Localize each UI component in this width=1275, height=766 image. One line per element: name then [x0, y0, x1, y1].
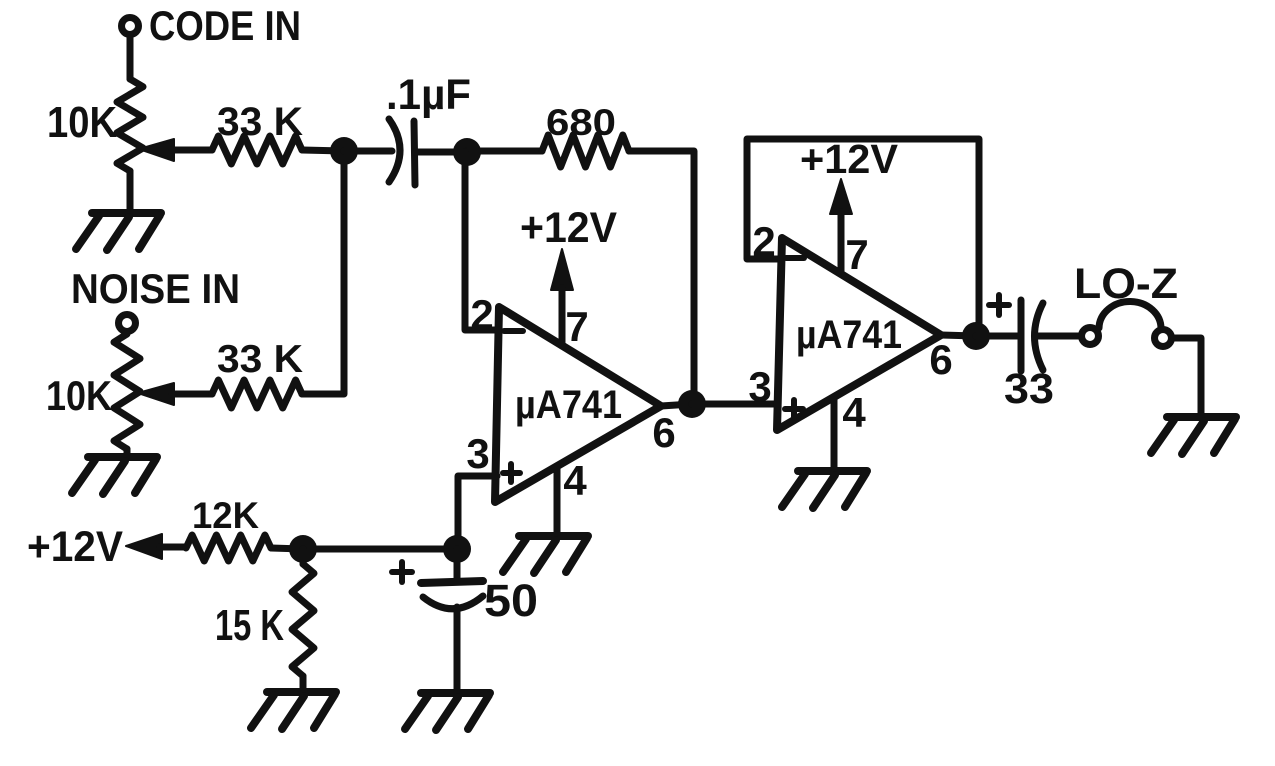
wire R6 to node E [271, 548, 303, 549]
svg-text:33: 33 [1004, 365, 1054, 413]
wire node A to C1 [344, 148, 392, 155]
wire R1 bottom to ground [127, 171, 134, 212]
wire node E to R7 [300, 549, 307, 564]
wire node B to U1 pin 2 [465, 152, 499, 330]
wire node G to C3 [976, 333, 1018, 340]
output terminal 2 [1155, 330, 1172, 347]
wire U2 feedback loop [747, 139, 979, 336]
wire R2 to node A [302, 150, 344, 151]
svg-text:+12V: +12V [800, 136, 899, 182]
wire node F to C2 [454, 549, 461, 581]
wire wiper to R4 [172, 391, 212, 398]
+12V arrow (U2 pin 7) [830, 179, 852, 214]
wire C3 to terminal [1036, 333, 1080, 340]
ground (R7) [267, 688, 336, 696]
svg-text:10K: 10K [47, 98, 117, 147]
svg-text:33 K: 33 K [217, 338, 303, 381]
wire C1 to node B [415, 149, 467, 156]
resistor R5 680 body [542, 135, 629, 167]
svg-text:2: 2 [470, 291, 493, 338]
ground (pot R3) [88, 453, 157, 461]
wire U2 pin 7 [838, 212, 845, 271]
wire R5 to node C (feedback) [629, 151, 694, 404]
wire U1 pin 4 [554, 466, 561, 533]
svg-text:LO-Z: LO-Z [1074, 260, 1178, 308]
junction node E [289, 535, 317, 563]
+12V arrow (bias) [126, 534, 162, 559]
pot R3 wiper arrow [138, 383, 174, 405]
+12V arrow (U1 pin 7) [551, 249, 573, 290]
wire U1 pin 3 to node F [458, 476, 497, 549]
capacitor C3 straight plate [1018, 300, 1025, 371]
junction node F [443, 535, 471, 563]
wire R7 to ground [300, 676, 307, 691]
svg-text:6: 6 [652, 409, 675, 456]
capacitor C1 straight plate [414, 121, 415, 185]
svg-text:NOISE IN: NOISE IN [71, 265, 240, 312]
capacitor C3 curved plate [1035, 303, 1044, 370]
svg-text:680: 680 [546, 102, 616, 143]
ground (U1 pin 4) [519, 532, 588, 540]
output terminal 1 [1082, 328, 1099, 345]
svg-text:2: 2 [752, 218, 775, 265]
capacitor C3 plus sign [989, 302, 1009, 308]
svg-text:3: 3 [748, 363, 771, 410]
svg-text:.1µF: .1µF [386, 71, 471, 119]
ground (output) [1167, 413, 1236, 421]
wire node C to U2 pin 3 [692, 401, 779, 408]
svg-text:+12V: +12V [520, 204, 617, 252]
resistor R6 12K body [186, 535, 271, 561]
svg-text:CODE IN: CODE IN [149, 2, 301, 49]
svg-text:µA741: µA741 [796, 313, 902, 357]
capacitor C2 straight plate [421, 581, 483, 583]
wire U1 output to node C [661, 404, 692, 406]
svg-text:6: 6 [929, 336, 952, 383]
wire C2 to ground [454, 607, 461, 692]
wire U2 pin 4 [831, 397, 838, 468]
wire R3 bottom to ground [124, 449, 131, 456]
junction node A [330, 137, 358, 165]
junction node C (U1 output) [678, 390, 706, 418]
svg-text:4: 4 [563, 457, 587, 504]
svg-text:µA741: µA741 [515, 383, 622, 427]
wire terminal to pot R1 [127, 35, 134, 79]
svg-text:+12V: +12V [27, 523, 123, 571]
svg-text:12K: 12K [192, 495, 259, 536]
potentiometer R3 10K body [114, 334, 140, 449]
resistor R2 33K body [212, 136, 302, 164]
wire terminal 2 to ground [1174, 338, 1201, 417]
svg-text:50: 50 [484, 575, 538, 626]
junction node G (U2 output) [962, 322, 990, 350]
svg-text:4: 4 [842, 389, 866, 436]
resistor R4 33K body [212, 380, 302, 408]
svg-text:7: 7 [845, 231, 868, 278]
capacitor C2 curved plate [423, 596, 483, 609]
wire arrow to R6 [160, 544, 186, 551]
op-amp U2 triangle [777, 238, 941, 430]
pot R1 wiper arrow [139, 139, 174, 161]
U1 minus sign (pin 2) [504, 328, 523, 334]
svg-text:33 K: 33 K [217, 100, 303, 144]
svg-text:15 K: 15 K [215, 601, 284, 650]
svg-text:3: 3 [466, 430, 489, 477]
wire R4 to node A [302, 151, 344, 394]
terminal CODE IN [122, 18, 139, 35]
svg-text:7: 7 [565, 303, 588, 350]
wire node E to node F [303, 546, 457, 553]
capacitor C1 curved plate [389, 119, 400, 182]
terminal NOISE IN [119, 315, 136, 332]
capacitor C2 plus sign [392, 569, 412, 575]
output link arc LO-Z [1099, 302, 1161, 329]
op-amp U1 triangle [495, 307, 661, 502]
U2 plus sign (pin 3) [785, 406, 803, 412]
ground (C2) [421, 689, 490, 697]
ground (U2 pin 4) [798, 467, 867, 475]
wire wiper to R2 [172, 147, 212, 154]
wire node B to R5 [467, 148, 542, 155]
U1 plus sign (pin 3) [503, 470, 520, 476]
svg-text:10K: 10K [46, 372, 112, 419]
potentiometer R1 10K body [117, 79, 143, 171]
wire U2 output to node G [941, 335, 976, 336]
wire U1 pin 7 [559, 288, 566, 346]
junction node B [453, 138, 481, 166]
ground (pot R1) [92, 209, 161, 217]
U2 minus sign (pin 2) [786, 255, 804, 261]
resistor R7 15K body [292, 564, 314, 676]
